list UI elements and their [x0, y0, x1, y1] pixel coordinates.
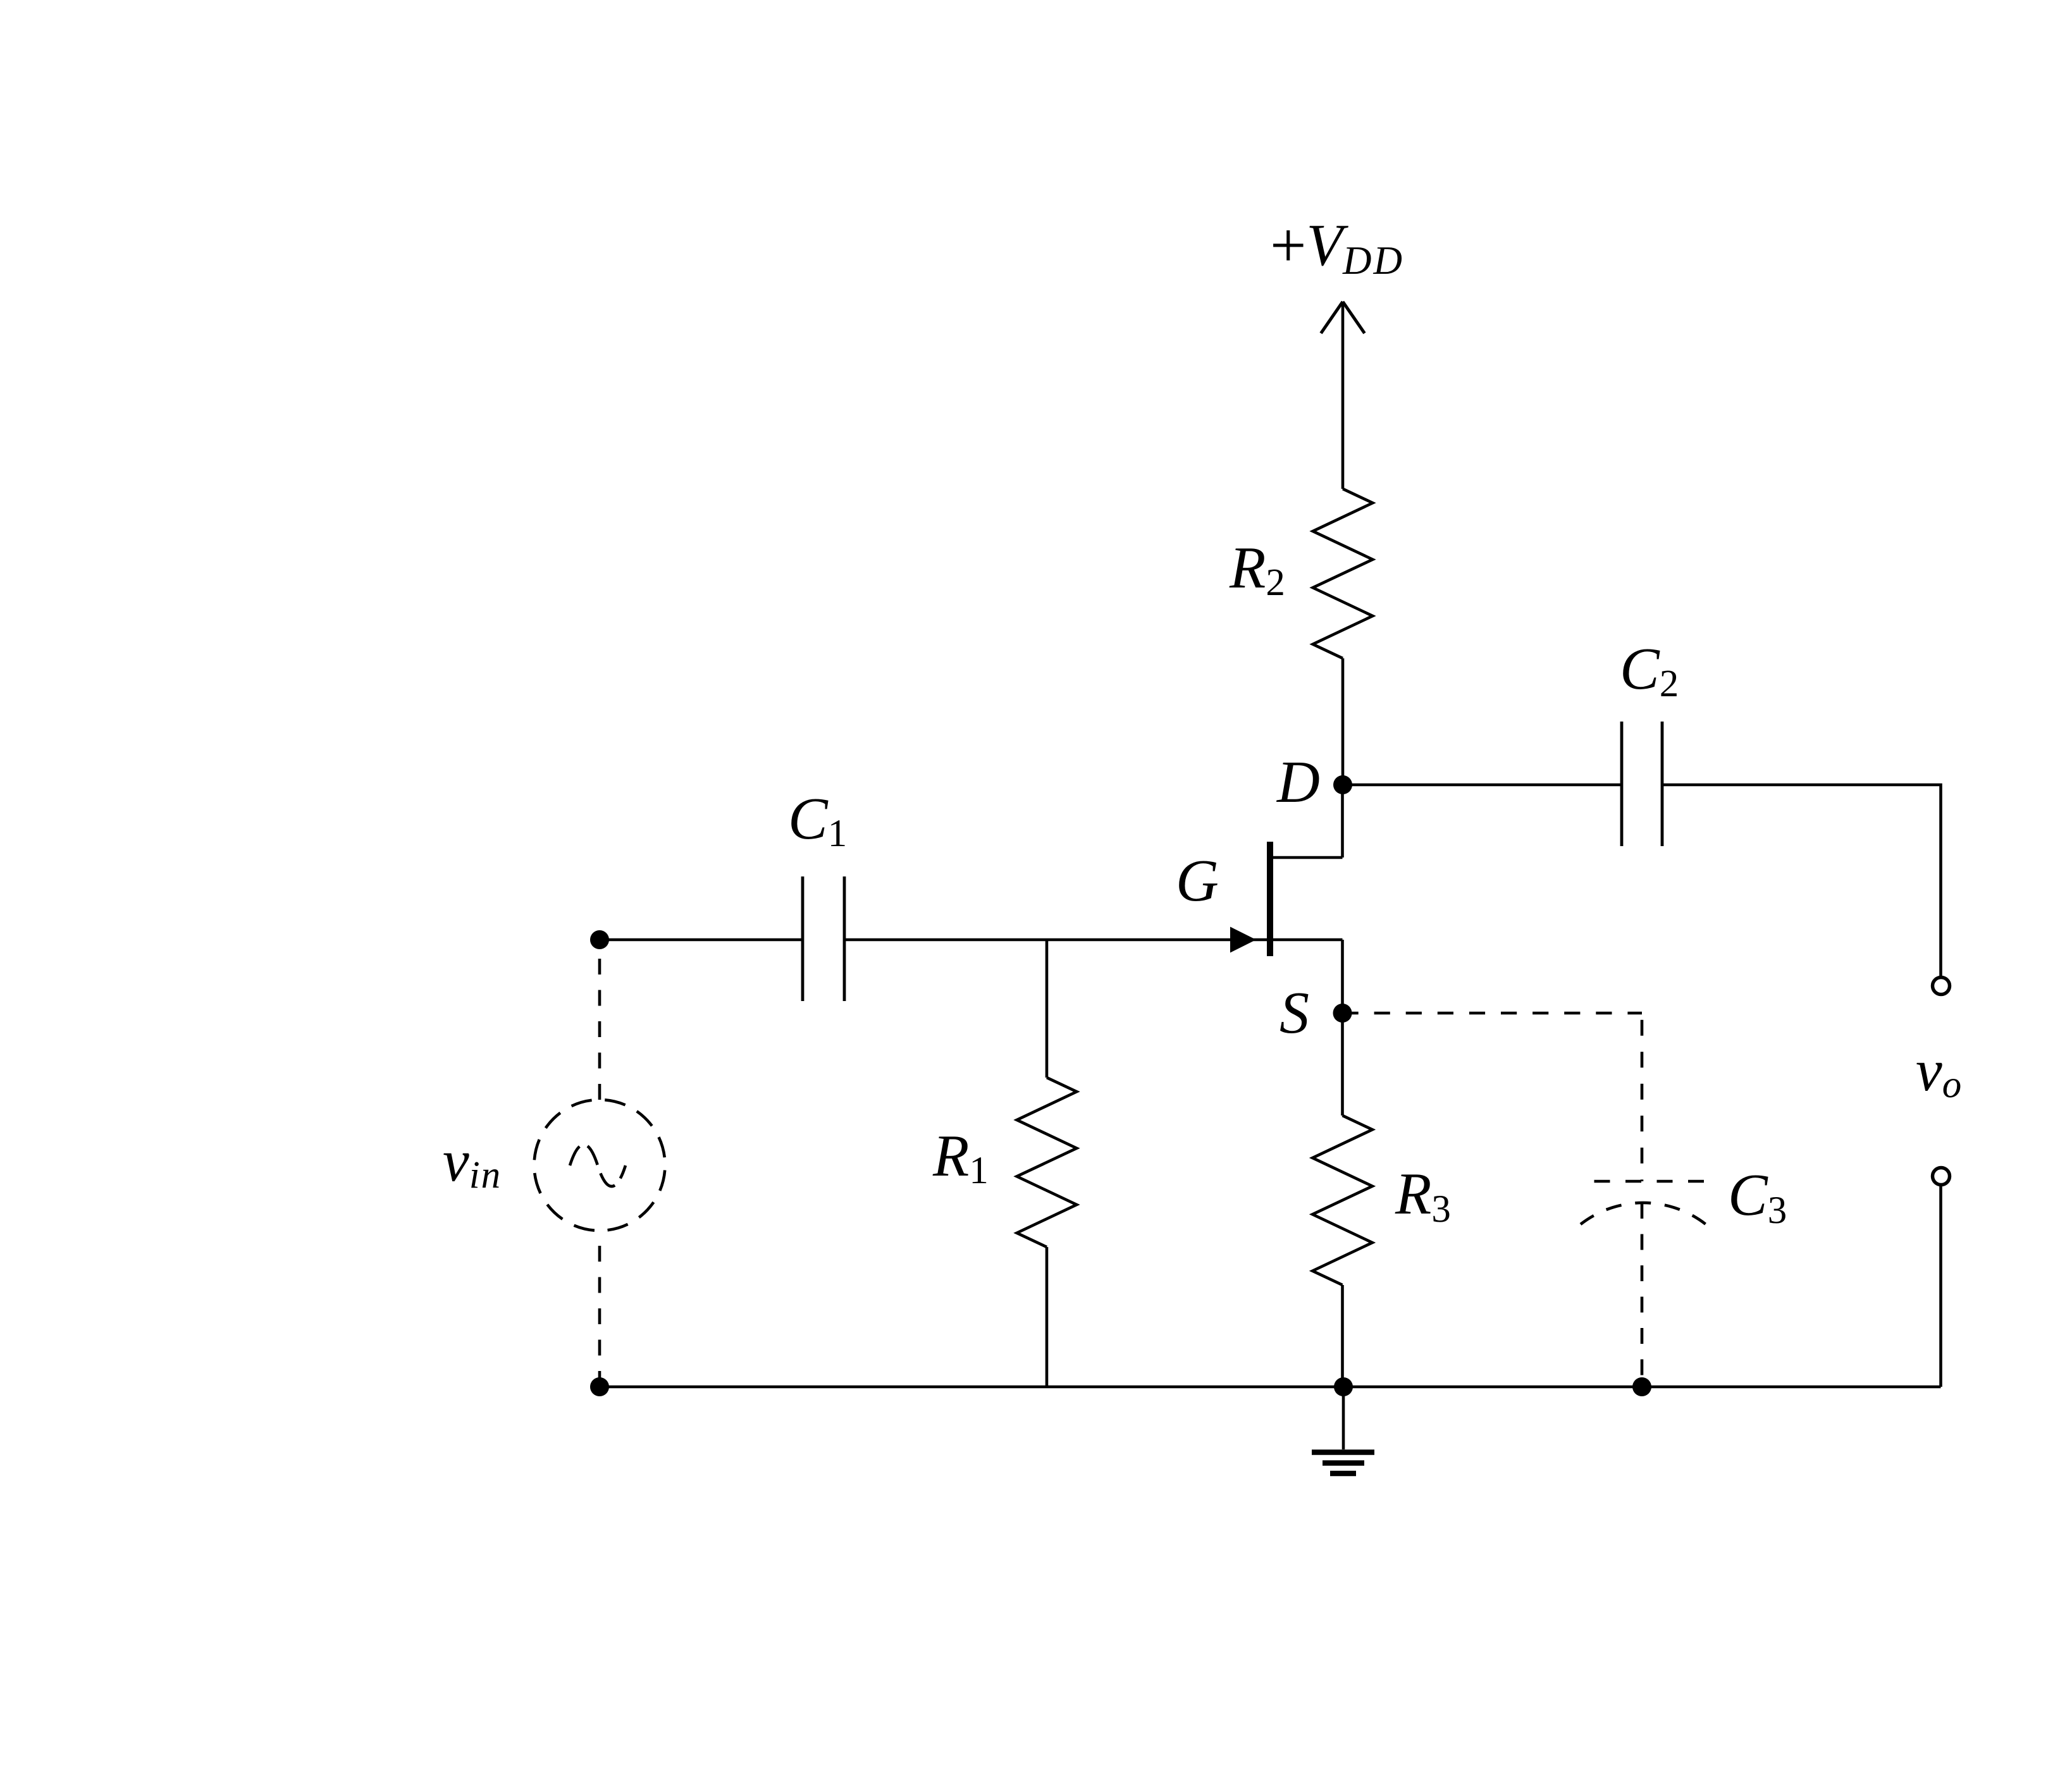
node: R3/ground junction: [1334, 1377, 1353, 1396]
capacitor C2: [1622, 722, 1662, 846]
node: input top-left: [590, 930, 609, 949]
source vin (dashed circle with sine): [534, 1100, 665, 1231]
transistor Q1 (N-JFET): [1230, 785, 1343, 1013]
wire (dashed): node S to C3: [1343, 1012, 1643, 1015]
svg-text:G: G: [1176, 848, 1219, 914]
wire: R1 bottom lead: [1045, 1247, 1049, 1387]
capacitor C3 (dashed, curved plate): [1581, 1181, 1706, 1224]
wire: R3 bottom lead: [1341, 1285, 1344, 1387]
node: input bottom-left: [590, 1377, 609, 1396]
wire (dashed): vin source down to bottom-left node: [598, 1231, 601, 1387]
power +VDD arrow: [1321, 302, 1365, 333]
svg-text:S: S: [1280, 980, 1309, 1046]
ground: [1312, 1387, 1374, 1473]
wire: node D to C2 left plate: [1343, 784, 1622, 787]
node D: [1333, 775, 1352, 794]
resistor R3: [1312, 1116, 1372, 1285]
wire: input node to C1 left plate: [600, 938, 803, 942]
capacitor C1: [803, 876, 844, 1001]
node: C3/ground junction: [1632, 1377, 1651, 1396]
wire (dashed): C3 top lead: [1641, 1013, 1644, 1181]
resistor R1: [1017, 1078, 1077, 1247]
wire (dashed): C3 bottom lead to rail: [1641, 1203, 1644, 1387]
wire: R2 top lead: [1341, 302, 1345, 489]
wire: vo- terminal down to bottom rail: [1939, 1185, 1942, 1387]
terminal vo- (open circle): [1933, 1168, 1950, 1185]
wire: R2 bottom lead down to node D: [1341, 658, 1345, 785]
resistor R2: [1313, 489, 1373, 658]
wire: C1 right plate to transistor gate: [844, 938, 1267, 942]
wire: node S down to R3: [1341, 1013, 1344, 1116]
wire: bottom ground rail: [600, 1386, 1941, 1389]
node S: [1333, 1004, 1352, 1023]
wire: R1 top lead: [1045, 940, 1049, 1078]
svg-text:D: D: [1276, 749, 1320, 815]
wire (dashed): input node down to vin source: [598, 940, 601, 1100]
wire: C2 right plate to output corner and down to vo+ terminal: [1662, 785, 1941, 977]
terminal vo+ (open circle): [1933, 978, 1950, 995]
